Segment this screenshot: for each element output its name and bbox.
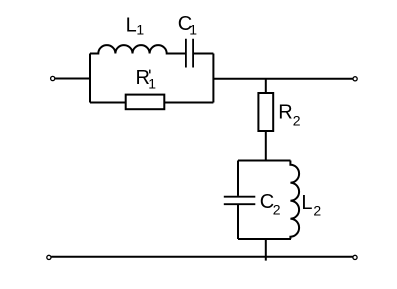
wire tank left vertical upper — [237, 161, 239, 196]
resistor R2 — [258, 93, 273, 131]
svg-text:R: R — [278, 101, 292, 123]
wire main rail to output — [213, 78, 353, 80]
wire input to left junction — [55, 78, 90, 80]
wire bottom branch right — [164, 102, 213, 104]
terminal bottom-right — [353, 255, 357, 259]
wire tank bottom — [238, 238, 291, 240]
svg-text:2: 2 — [273, 201, 281, 217]
wire tank top — [238, 160, 291, 162]
svg-text:2: 2 — [313, 202, 321, 218]
capacitor C1 — [186, 39, 193, 68]
svg-text:2: 2 — [293, 112, 301, 128]
resistor R'1 — [126, 95, 165, 110]
wire bottom rail — [51, 256, 353, 258]
wire node to R2 — [265, 79, 267, 93]
inductor L1 — [90, 45, 185, 53]
terminal input top-left — [51, 76, 55, 80]
inductor L2 — [290, 161, 299, 240]
wire tank left vertical lower — [237, 205, 239, 239]
wire left loop vertical — [89, 54, 91, 103]
wire tank stem to bottom rail — [265, 239, 267, 261]
wire bottom branch left — [90, 102, 126, 104]
capacitor C2 — [224, 197, 256, 205]
wire right loop vertical — [212, 54, 214, 103]
svg-text:L: L — [301, 192, 312, 214]
svg-text:1: 1 — [189, 21, 197, 37]
wire R2 to tank top — [265, 131, 267, 161]
svg-text:L: L — [126, 15, 137, 37]
svg-text:1: 1 — [148, 75, 156, 91]
wire C1 to right loop corner — [194, 53, 214, 55]
terminal bottom-left — [47, 255, 51, 259]
terminal output top-right — [353, 77, 357, 81]
svg-text:1: 1 — [136, 21, 144, 37]
